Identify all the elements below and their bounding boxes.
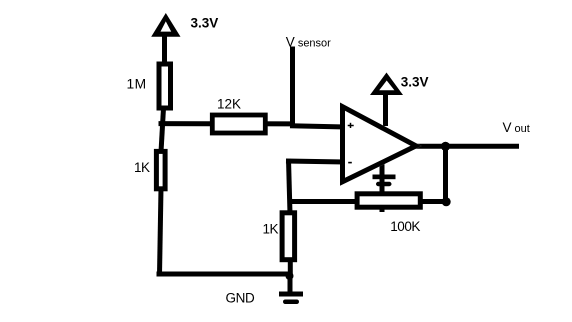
svg-text:100K: 100K [390, 219, 420, 234]
node: bottom ground junction [286, 272, 294, 280]
wire below left 1K down to bottom rail [160, 188, 162, 275]
wire main horizontal from node A to V sensor node [159, 121, 295, 126]
resistor 12K [212, 115, 265, 133]
wire vertical from inverting corner down past tap to bottom 1K [289, 159, 291, 214]
resistor 1K (bottom) [282, 213, 295, 260]
wire from 100K right to feedback node [421, 199, 447, 204]
resistor 100K (feedback) [357, 194, 420, 207]
power symbol 3.3V arrow (op-amp supply) [370, 73, 403, 96]
ground symbol (bottom GND) [279, 292, 303, 305]
ground symbol (op-amp) [373, 175, 396, 187]
wire op-amp output to V out [413, 144, 519, 149]
wire feedback vertical from output node [443, 144, 448, 202]
svg-text:Vsensor: Vsensor [286, 34, 331, 49]
node: output junction [441, 142, 450, 151]
resistor 1M [159, 64, 171, 108]
wire from left supply arrow to 1M resistor [162, 32, 167, 64]
svg-text:1K: 1K [134, 160, 150, 175]
node: feedback/100K junction [442, 197, 451, 206]
wire tap from inverting node to 100K left [289, 199, 358, 204]
wire op-amp positive supply stub [383, 93, 388, 126]
wire op-amp ground stub [380, 158, 385, 212]
svg-text:GND: GND [226, 291, 255, 306]
wire ground stub below bottom node [288, 276, 293, 292]
op-amp U1 triangle [340, 103, 422, 186]
resistor 1K (left) [156, 151, 165, 188]
svg-text:Vout: Vout [503, 120, 530, 135]
wire from 1M bottom down to node A [161, 108, 164, 152]
op-amp minus input marking [348, 162, 352, 164]
svg-text:3.3V: 3.3V [401, 74, 429, 89]
wire horizontal into op-amp inverting input [286, 161, 345, 162]
svg-text:12K: 12K [217, 97, 241, 112]
wire V sensor drop to main wire [290, 47, 295, 127]
power symbol 3.3V arrow (left supply) [151, 13, 180, 37]
wire from V sensor node to op-amp non-inverting input [290, 126, 346, 127]
op-amp plus input marking [348, 123, 354, 128]
svg-text:3.3V: 3.3V [191, 15, 219, 30]
wire bottom ground rail [157, 272, 292, 277]
svg-text:1K: 1K [263, 221, 279, 236]
svg-text:1M: 1M [127, 76, 147, 91]
wire from bottom 1K to ground node [288, 258, 293, 276]
